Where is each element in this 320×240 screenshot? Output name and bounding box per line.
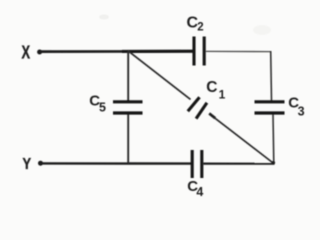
svg-text:1: 1: [219, 88, 226, 102]
svg-text:C: C: [206, 79, 217, 96]
wire: C1 second plate to node B (diagonal): [214, 117, 274, 163]
wire: X terminal to C2 left plate (top rail): [41, 50, 194, 53]
scan smudge top: [99, 15, 109, 20]
capacitor C4 plates: [191, 150, 194, 178]
capacitor C1 plates (diagonal): [188, 97, 200, 111]
wire: diagonal node A to C1 first plate: [128, 51, 191, 100]
capacitor C2 plates: [192, 37, 195, 66]
wire: C5 bottom plate to bottom rail: [127, 115, 129, 164]
wire: short stub after C1 second plate: [209, 113, 215, 118]
node B junction: [272, 161, 276, 165]
svg-text:X: X: [22, 42, 31, 62]
svg-text:4: 4: [196, 185, 203, 199]
capacitor C5 plates: [113, 100, 143, 103]
wire: Y terminal to C4 left plate (bottom rail): [42, 162, 192, 165]
node Y terminal dot: [38, 161, 43, 166]
wire: node A down to C5 top plate: [127, 52, 129, 101]
wire: right rail upper (corner down to C3 top plate): [270, 51, 273, 101]
wire: C4 right plate to node B (bottom rail): [203, 163, 274, 165]
capacitor C3 plates: [255, 100, 285, 103]
scan smudge right: [253, 25, 271, 35]
wire: right rail lower (C3 bottom plate to node B): [272, 115, 275, 164]
svg-text:3: 3: [298, 104, 305, 118]
wire: C2 right plate to top-right corner: [206, 50, 271, 52]
svg-text:Y: Y: [23, 156, 32, 173]
node X terminal dot: [37, 50, 42, 55]
svg-text:2: 2: [197, 21, 203, 33]
svg-text:5: 5: [99, 100, 106, 114]
wire: top rail thick segment at node A: [122, 50, 193, 53]
